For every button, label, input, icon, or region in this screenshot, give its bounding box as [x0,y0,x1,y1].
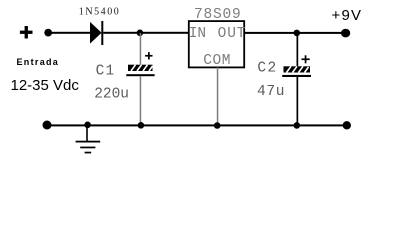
node input terminal dot [44,29,52,37]
svg-text:C1: C1 [96,64,116,80]
wire C2 bottom lead [297,77,299,126]
node bottom-right terminal dot [343,121,351,129]
label C2 polarity + [302,55,310,63]
svg-text:1N5400: 1N5400 [79,7,121,18]
op-amp U1 78S09 regulator box [189,21,244,67]
node COM bottom junction [214,122,221,129]
wire diode cathode to regulator IN [103,32,188,34]
wire input dot to diode anode [48,32,90,34]
capacitor C1 [126,65,154,77]
node junction over C1 [137,30,144,37]
svg-text:47u: 47u [257,84,285,100]
node bottom-left terminal dot [43,121,52,130]
ground [76,125,101,153]
svg-text:C2: C2 [257,61,277,77]
wire bottom ground rail [47,124,347,126]
wire C2 top lead [297,33,299,67]
node C2 bottom junction [294,122,301,129]
node junction over C2 [294,30,301,37]
diode D1 1N5400 [90,21,103,45]
svg-text:12-35 Vdc: 12-35 Vdc [11,77,80,94]
svg-text:IN: IN [189,26,206,42]
node + (input positive terminal symbol) [20,26,33,39]
svg-text:220u: 220u [94,87,129,103]
wire regulator OUT to output dot [244,32,342,34]
capacitor C2 [282,66,311,77]
wire regulator COM lead [217,67,219,126]
svg-text:COM: COM [203,53,231,69]
wire C1 top lead [140,33,142,65]
svg-text:OUT: OUT [218,26,247,42]
node output terminal dot [341,29,350,38]
node ground junction [84,122,91,129]
label C1 polarity + [145,52,152,59]
svg-text:Entrada: Entrada [17,57,60,67]
wire C1 bottom lead [140,76,142,126]
node C1 bottom junction [138,122,145,129]
svg-text:+9V: +9V [332,7,363,24]
svg-text:78S09: 78S09 [194,7,242,23]
